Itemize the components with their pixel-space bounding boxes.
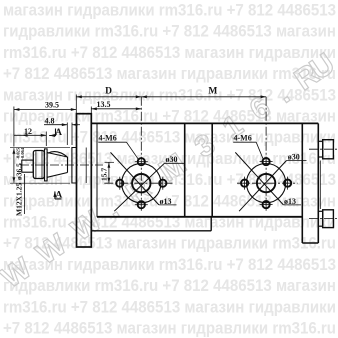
- svg-text:A: A: [55, 128, 62, 138]
- svg-text:13.5: 13.5: [97, 100, 111, 109]
- svg-text:ø36.5: ø36.5: [15, 163, 24, 180]
- svg-text:4-М6: 4-М6: [234, 134, 252, 143]
- svg-text:A: A: [55, 191, 62, 201]
- svg-text:rm316.ru +7 812 4486513 магази: rm316.ru +7 812 4486513 магазин гидравли…: [3, 297, 336, 316]
- svg-text:15.7: 15.7: [100, 168, 109, 181]
- svg-text:М12Х1.25: М12Х1.25: [15, 183, 24, 216]
- svg-text:39.5: 39.5: [45, 101, 59, 110]
- svg-text:D: D: [105, 87, 112, 97]
- svg-text:4.8: 4.8: [45, 117, 55, 126]
- svg-text:M: M: [208, 87, 217, 97]
- svg-text:rm316.ru +7 812 4486513 магази: rm316.ru +7 812 4486513 магазин гидравли…: [3, 43, 336, 62]
- svg-text:гидравлики rm316.ru +7 812 448: гидравлики rm316.ru +7 812 4486513 магаз…: [3, 22, 336, 41]
- svg-text:ø30: ø30: [166, 155, 178, 164]
- svg-text:-0.064: -0.064: [20, 147, 25, 159]
- svg-text:+7 812 4486513 магазин гидравл: +7 812 4486513 магазин гидравлики rm316.…: [3, 319, 336, 338]
- svg-text:4-М6: 4-М6: [99, 134, 117, 143]
- svg-text:ø30: ø30: [288, 152, 300, 161]
- svg-text:гидравлики rm316.ru +7 812 448: гидравлики rm316.ru +7 812 4486513 магаз…: [3, 276, 336, 295]
- svg-text:ø13: ø13: [284, 197, 296, 206]
- svg-text:магазин гидравлики rm316.ru +7: магазин гидравлики rm316.ru +7 812 44865…: [3, 1, 336, 20]
- svg-text:ø13: ø13: [160, 197, 172, 206]
- svg-text:12: 12: [24, 127, 32, 136]
- svg-text:rm316.ru +7 812 4486513 магази: rm316.ru +7 812 4486513 магазин гидравли…: [3, 128, 336, 147]
